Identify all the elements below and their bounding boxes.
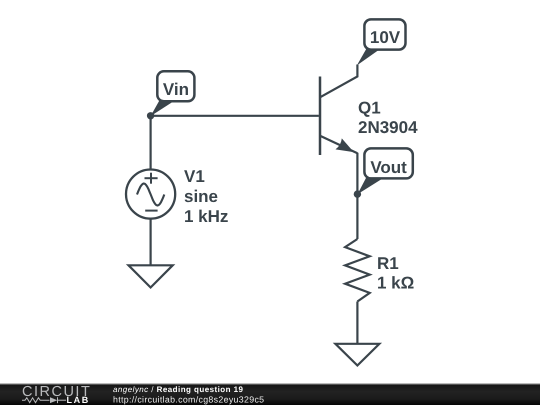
V1 value label [184,167,228,226]
footer black bar [0,383,540,405]
svg-text:2N3904: 2N3904 [358,118,418,137]
ground (below V1) [129,265,173,287]
node Vin junction dot [147,112,154,119]
svg-text:Vin: Vin [163,80,189,99]
svg-text:1 kHz: 1 kHz [184,207,228,226]
node Vout junction dot [354,190,361,197]
svg-text:sine: sine [184,187,218,206]
svg-text:R1: R1 [377,254,399,273]
wire: emitter down through node Vout to R1 top [356,153,358,239]
wire: R1 bottom to ground [356,302,358,345]
transistor Q1 [320,65,357,156]
node label Vin [151,71,195,116]
svg-text:angelync / Reading question 19: angelync / Reading question 19 [113,385,244,394]
node label Vout [358,148,413,194]
Q1 label [358,99,418,138]
Q1 emitter arrowhead [336,138,354,152]
svg-text:Q1: Q1 [358,99,381,118]
node label 10V [357,19,406,65]
svg-text:Vout: Vout [370,158,407,177]
wire: node Vin down to V1 top [150,116,152,170]
voltage source V1 [126,170,175,219]
svg-text:LAB: LAB [67,395,89,405]
CircuitLab logo: diode triangle [50,397,57,403]
wire: base wire from node Vin to Q1 base [151,115,319,117]
svg-text:http://circuitlab.com/cg8s2eyu: http://circuitlab.com/cg8s2eyu329c5 [113,394,264,404]
wire: V1 bottom to ground [150,219,152,266]
svg-text:1 kΩ: 1 kΩ [377,273,414,292]
ground (below R1) [335,344,379,366]
R1 label [377,254,414,293]
resistor R1 [345,239,370,302]
svg-text:10V: 10V [370,28,401,47]
svg-text:V1: V1 [184,167,205,186]
CircuitLab logo: resistor-diode underline [22,397,66,403]
